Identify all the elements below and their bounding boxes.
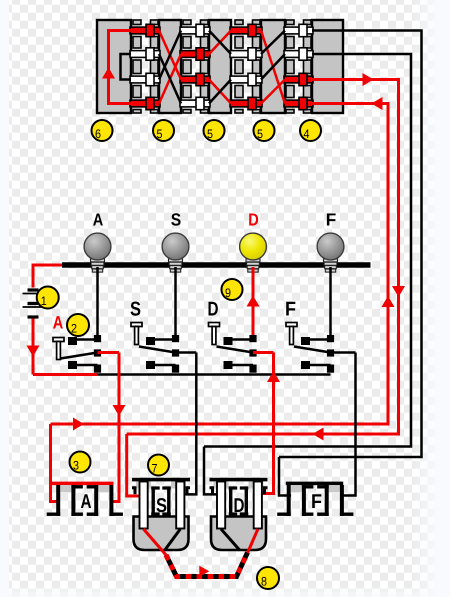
svg-text:F: F	[326, 209, 337, 229]
svg-text:9: 9	[225, 286, 231, 300]
svg-text:A: A	[93, 209, 104, 229]
svg-text:6: 6	[95, 127, 101, 141]
svg-text:5: 5	[257, 127, 263, 141]
svg-text:2: 2	[71, 322, 77, 336]
svg-text:F: F	[285, 299, 296, 321]
svg-text:D: D	[248, 209, 259, 229]
svg-text:5: 5	[207, 127, 213, 141]
svg-text:7: 7	[152, 462, 158, 476]
svg-text:1: 1	[41, 294, 47, 308]
svg-text:8: 8	[261, 575, 267, 589]
svg-text:F: F	[311, 491, 322, 513]
svg-text:D: D	[234, 495, 245, 517]
svg-text:5: 5	[157, 127, 163, 141]
svg-text:D: D	[208, 299, 219, 321]
svg-text:A: A	[81, 491, 92, 513]
svg-text:4: 4	[304, 127, 310, 141]
svg-text:A: A	[53, 312, 64, 332]
svg-text:S: S	[171, 209, 182, 229]
svg-text:S: S	[130, 299, 141, 321]
svg-text:S: S	[156, 495, 167, 517]
svg-text:3: 3	[73, 459, 79, 473]
